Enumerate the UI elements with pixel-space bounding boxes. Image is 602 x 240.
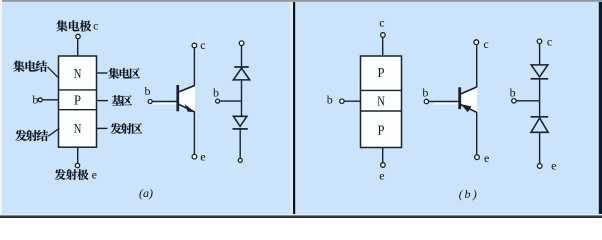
base wire — [220, 100, 242, 102]
diode D3 (collector-base) — [531, 65, 548, 77]
Q1 collector wire — [193, 48, 195, 86]
Q2 emitter diagonal — [461, 105, 477, 113]
svg-text:b: b — [465, 187, 471, 201]
emitter terminal e — [75, 163, 79, 167]
Q2 emitter terminal — [475, 155, 480, 160]
svg-text:P: P — [378, 123, 385, 138]
diode D2 cathode bar — [233, 128, 248, 130]
collector junction line — [59, 89, 97, 91]
svg-text:b: b — [510, 85, 516, 99]
svg-text:c: c — [379, 15, 384, 29]
wire D3 to node b — [539, 79, 541, 117]
diode D1 cathode bar — [234, 66, 249, 68]
Q1 emitter terminal — [192, 154, 197, 159]
collector lead wire — [77, 39, 79, 56]
diode D4 (emitter-base) — [531, 118, 548, 132]
Q1 base bar — [176, 85, 179, 111]
svg-text:b: b — [327, 93, 333, 107]
collector terminal c — [76, 34, 80, 38]
emitter lead wire — [382, 148, 384, 163]
Q1 emitter diagonal — [179, 104, 195, 112]
collector terminal c — [381, 33, 386, 38]
svg-text:N: N — [377, 94, 385, 109]
NPN structure box — [59, 56, 97, 147]
emitter terminal e — [381, 163, 386, 168]
svg-text:e: e — [484, 151, 489, 165]
base terminal b — [38, 98, 42, 102]
wire D1 to node b — [241, 80, 243, 116]
transistor Q1 (NPN symbol) — [145, 38, 206, 163]
PNP structure box — [361, 56, 402, 148]
junction line upper — [361, 89, 402, 91]
Q2 collector diagonal — [461, 87, 477, 94]
svg-text:N: N — [74, 67, 82, 82]
svg-text:N: N — [74, 122, 82, 137]
diode D2 (base-emitter) — [233, 116, 247, 126]
diode D4 cathode bar — [531, 116, 549, 118]
emitter terminal node — [238, 158, 242, 162]
svg-text:c: c — [483, 37, 488, 51]
diode D1 (base-collector) — [233, 68, 249, 80]
svg-text:e: e — [200, 149, 205, 163]
Q2 base bar — [458, 87, 461, 109]
base wire — [344, 100, 360, 102]
Q1 base wire — [152, 101, 177, 103]
emitter terminal node e — [537, 164, 542, 169]
svg-text:b: b — [422, 86, 428, 100]
svg-text:e: e — [379, 169, 384, 183]
transistor Q2 (PNP symbol) — [422, 37, 489, 165]
base terminal b — [340, 99, 344, 103]
collector region pointer wire — [97, 72, 108, 74]
svg-text:c: c — [93, 19, 98, 33]
emitter junction pointer line — [48, 128, 59, 136]
base terminal node b — [512, 99, 516, 103]
base wire — [42, 99, 58, 101]
diode D3 cathode bar — [531, 78, 549, 80]
diode equivalent circuit of NPN — [213, 41, 250, 162]
Q1 collector terminal — [192, 43, 197, 48]
svg-text:b: b — [145, 84, 151, 98]
emitter junction line — [59, 109, 97, 111]
wire D4 to emitter — [539, 132, 541, 163]
svg-text:P: P — [378, 66, 385, 81]
collector terminal node — [239, 41, 244, 46]
Q1 base terminal — [148, 100, 152, 104]
label ji-qu (base region) — [112, 95, 132, 106]
Q2 collector wire — [476, 45, 478, 87]
Q1 emitter wire — [193, 112, 195, 155]
svg-text:e: e — [551, 159, 556, 173]
wire c to D3 — [539, 44, 541, 65]
collector junction pointer line — [48, 67, 59, 78]
diode equivalent circuit of PNP — [510, 35, 557, 173]
base wire — [516, 100, 540, 102]
junction line lower — [361, 110, 402, 112]
wire D2 to emitter — [239, 129, 241, 159]
label fa-she-ji (emitter electrode) — [55, 169, 89, 180]
label ji-dian-jie (collector junction) — [13, 61, 47, 72]
emitter region pointer wire — [97, 127, 108, 129]
Q1 emitter arrow — [185, 104, 196, 112]
svg-text:): ) — [472, 187, 477, 201]
Q2 emitter wire — [476, 112, 478, 155]
svg-text:(a): (a) — [139, 186, 153, 200]
Q2 emitter arrow (pointing in) — [461, 104, 472, 112]
Q2 base wire — [429, 101, 459, 103]
label fa-she-qu (emitter region) — [111, 123, 143, 134]
collector lead wire — [382, 37, 384, 56]
label ji-dian-qu (collector region) — [108, 68, 140, 79]
svg-text:c: c — [200, 38, 205, 52]
base region pointer wire — [97, 100, 109, 102]
svg-text:P: P — [74, 93, 81, 108]
wire collector to D1 — [241, 46, 243, 68]
Q1 collector diagonal — [179, 86, 195, 92]
emitter lead wire — [77, 147, 79, 163]
svg-text:e: e — [92, 167, 97, 181]
svg-text:c: c — [547, 35, 552, 49]
label ji-dian-ji (collector electrode) — [56, 20, 91, 31]
Q2 collector terminal — [474, 40, 479, 45]
base terminal node b — [216, 99, 220, 103]
svg-text:b: b — [213, 85, 219, 99]
collector terminal node c — [537, 39, 542, 44]
label fa-she-jie (emitter junction) — [15, 130, 48, 141]
svg-text:b: b — [32, 93, 38, 107]
Q2 base terminal — [424, 99, 428, 103]
